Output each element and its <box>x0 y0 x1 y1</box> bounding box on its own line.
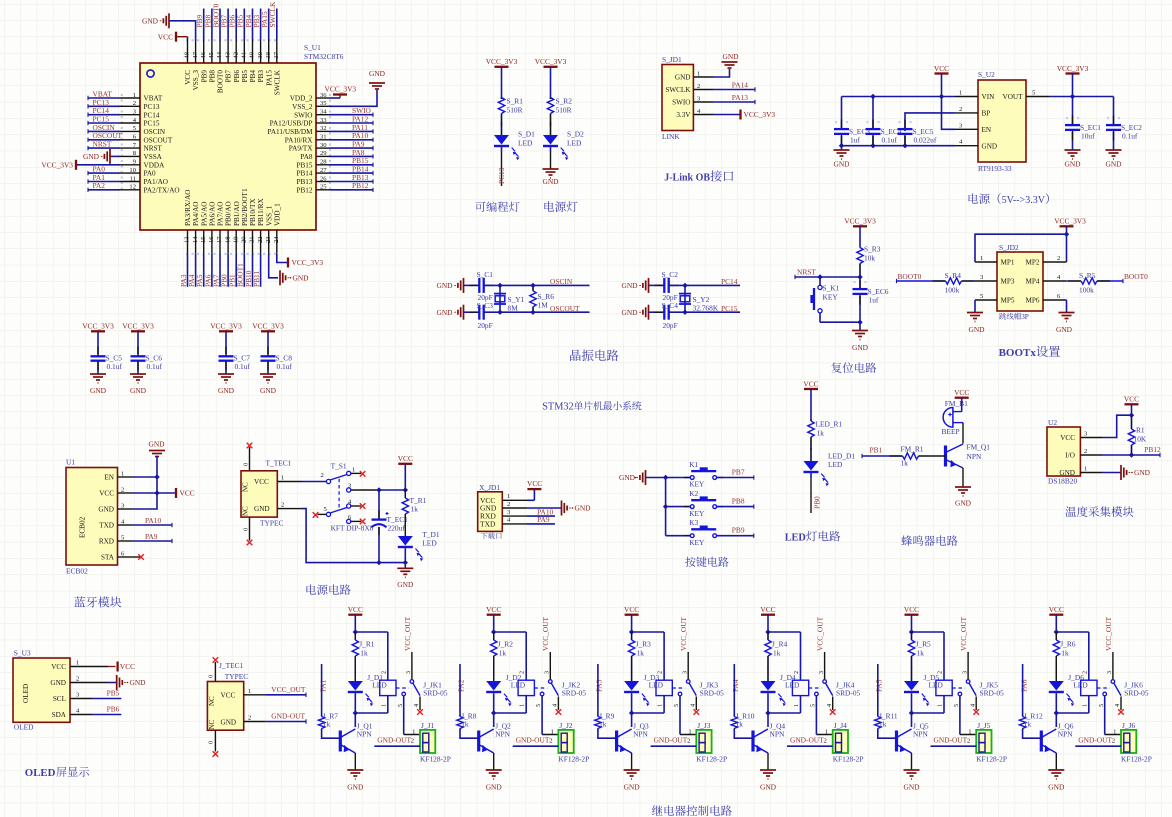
wire to GND <box>550 147 552 153</box>
relay pin 4 no-connect <box>832 697 834 711</box>
wire reset bottom <box>820 321 860 323</box>
wire PA6 to base resistor <box>1022 664 1024 715</box>
relay pin 4 no-connect <box>695 697 697 711</box>
svg-text:1: 1 <box>937 704 944 707</box>
svg-text:PB5: PB5 <box>107 689 120 698</box>
svg-text:0.1uf: 0.1uf <box>107 362 123 371</box>
ground (temp) <box>1120 465 1122 480</box>
wire emitter to ground (relay 3) <box>631 753 633 770</box>
svg-text:20: 20 <box>241 236 248 243</box>
buzzer FM_B1 BEEP <box>943 408 953 428</box>
ground at S_C2 <box>648 278 650 293</box>
svg-text:OSCOUT: OSCOUT <box>144 136 173 144</box>
svg-text:45: 45 <box>208 51 215 58</box>
svg-text:GND: GND <box>486 783 503 792</box>
capacitor S_C5 0.1uf <box>97 361 99 374</box>
svg-text:1: 1 <box>793 704 800 707</box>
svg-text:13: 13 <box>184 236 191 243</box>
coil bottom wire <box>1088 696 1090 713</box>
svg-text:1: 1 <box>121 470 124 477</box>
svg-text:VDD_1: VDD_1 <box>273 203 281 226</box>
svg-text:OSCIN: OSCIN <box>144 128 166 136</box>
connector X_JD1 body <box>478 492 503 532</box>
connector S_JD1 body <box>662 65 693 131</box>
svg-text:2: 2 <box>1057 255 1060 262</box>
svg-text:3P: 3P <box>1021 313 1029 321</box>
U1 pin 47 (VSS_3) wire <box>195 40 197 63</box>
wire K3 to PB9 <box>717 535 754 537</box>
svg-text:GND: GND <box>98 506 114 514</box>
svg-text:GND: GND <box>903 783 920 792</box>
T_TEC1 pin names <box>254 478 270 513</box>
svg-text:1k: 1k <box>1061 649 1069 658</box>
svg-text:KF128-2P: KF128-2P <box>976 755 1007 764</box>
svg-text:1: 1 <box>281 475 284 482</box>
capacitor S_C6 0.1uf <box>137 361 139 374</box>
svg-text:GND: GND <box>624 783 641 792</box>
relay throw pin 5 <box>540 692 544 696</box>
svg-text:T_S1: T_S1 <box>331 462 347 471</box>
svg-text:PA9: PA9 <box>145 532 158 541</box>
svg-text:PB14: PB14 <box>297 170 313 178</box>
svg-text:J-Link OB: J-Link OB <box>664 173 710 184</box>
X_JD1 pin 3 wire <box>502 515 527 517</box>
svg-text:VCC_3V3: VCC_3V3 <box>82 322 114 331</box>
svg-text:S_U3: S_U3 <box>14 649 31 658</box>
U1 pin 17 (PA7/AO) wire <box>219 230 221 254</box>
svg-text:J_J3: J_J3 <box>697 721 710 730</box>
svg-text:1: 1 <box>507 493 510 500</box>
U1 pin 31 (PA10/RX) wire <box>316 139 330 141</box>
svg-text:PA12/USB/DP: PA12/USB/DP <box>270 120 313 128</box>
power VCC at X_JD1 <box>533 489 535 500</box>
X_JD1 pin 4 wire <box>502 523 527 525</box>
ground (T block) <box>404 563 406 569</box>
U1 pin 30 (PA9/TX) wire <box>316 147 330 149</box>
T_TEC1 pin 1 wire <box>277 481 302 483</box>
transistor FM_Q1 NPN <box>944 446 947 467</box>
J_TEC1 pin 2 wire <box>244 721 266 723</box>
svg-text:PB6: PB6 <box>107 705 120 714</box>
svg-text:12: 12 <box>129 184 136 191</box>
svg-text:K2: K2 <box>689 489 698 498</box>
svg-text:VCC: VCC <box>99 490 114 498</box>
svg-text:1: 1 <box>133 92 136 99</box>
wire RXD to PA9 <box>133 540 172 542</box>
svg-text:S_D1: S_D1 <box>518 130 535 139</box>
svg-text:2: 2 <box>697 83 700 90</box>
U1 pin 27 (PB14) wire <box>316 172 330 174</box>
svg-text:GND: GND <box>50 679 66 687</box>
svg-text:GND: GND <box>369 69 386 78</box>
crystal S_Y2 32.768K <box>684 285 686 312</box>
relay throw pin 5 <box>1103 692 1107 696</box>
svg-text:23: 23 <box>265 236 272 243</box>
svg-text:28: 28 <box>320 159 327 166</box>
wire PA4 to base resistor <box>733 664 735 715</box>
LED J_D2 <box>493 668 495 681</box>
svg-text:PA6: PA6 <box>1019 679 1028 692</box>
wire VCC node to coil <box>494 631 527 633</box>
relay coil J_JK2 SRD-05 <box>518 680 534 695</box>
svg-text:BOOT0: BOOT0 <box>1124 272 1148 281</box>
svg-text:0.1uf: 0.1uf <box>147 362 163 371</box>
svg-text:2: 2 <box>967 738 970 745</box>
svg-text:KEY: KEY <box>689 480 705 489</box>
relay link dashed <box>952 687 965 689</box>
svg-text:510R: 510R <box>556 106 572 115</box>
ground at S_JD2 pin 5 <box>967 312 983 314</box>
svg-text:VCC: VCC <box>527 479 542 488</box>
svg-text:GND: GND <box>955 499 972 508</box>
svg-text:15: 15 <box>200 236 207 243</box>
relay armature <box>826 683 833 696</box>
svg-text:VCC: VCC <box>180 489 195 498</box>
svg-text:VCC_OUT: VCC_OUT <box>816 616 825 651</box>
T_S1 link dashed <box>338 479 340 509</box>
svg-text:MP6: MP6 <box>1026 297 1040 305</box>
svg-text:GND: GND <box>83 152 100 161</box>
key K3 <box>684 535 690 537</box>
relay coil J_JK4 SRD-05 <box>792 680 808 695</box>
T_S1 pin 3 <box>347 488 351 492</box>
svg-text:TXD: TXD <box>99 522 114 530</box>
S_JD2 pin 3 wire <box>975 280 997 282</box>
svg-text:GND: GND <box>1048 783 1065 792</box>
svg-text:48: 48 <box>184 51 191 58</box>
svg-text:S_R4: S_R4 <box>945 271 962 280</box>
ground at S_JD2 pin 6 <box>1059 312 1075 314</box>
wire to K1 <box>666 477 690 479</box>
svg-text:1: 1 <box>657 704 664 707</box>
svg-text:NRST: NRST <box>144 145 163 153</box>
svg-text:2: 2 <box>519 671 526 674</box>
svg-text:X_JD1: X_JD1 <box>479 483 500 492</box>
svg-text:PA11/USB/DM: PA11/USB/DM <box>267 128 313 136</box>
svg-text:38: 38 <box>265 51 272 58</box>
relay common pin 3 <box>967 652 969 679</box>
relay armature <box>689 683 696 696</box>
svg-text:0.1uf: 0.1uf <box>277 362 293 371</box>
svg-text:34: 34 <box>320 109 327 116</box>
svg-text:OLED: OLED <box>14 723 34 732</box>
svg-text:NPN: NPN <box>770 730 785 739</box>
resistor S_R3 10k <box>859 246 861 249</box>
S_U3 pin 3 wire <box>70 698 93 700</box>
S_JD2 pin 1 wire <box>975 261 997 263</box>
svg-text:GND: GND <box>130 678 147 687</box>
BP wire to S_EC5 <box>905 113 955 131</box>
svg-text:PA8: PA8 <box>300 153 313 161</box>
ground at S_U3 <box>116 675 118 690</box>
svg-text:5V-->3.3V: 5V-->3.3V <box>1002 195 1046 206</box>
relay link dashed <box>534 687 547 689</box>
svg-text:KFT DIP-8X8: KFT DIP-8X8 <box>331 524 374 533</box>
svg-text:S_C2: S_C2 <box>662 270 679 279</box>
title dianyuan dianlu (T) <box>306 584 316 594</box>
S_JD1 pin 4 line <box>693 114 713 116</box>
svg-text:GND: GND <box>1056 325 1073 334</box>
title anjian dianlu <box>685 557 695 567</box>
label xiazaikou <box>481 533 488 540</box>
relay armature <box>1114 683 1121 696</box>
J_J1 pin 2 wire GND-OUT <box>374 745 420 747</box>
svg-text:2: 2 <box>380 671 387 674</box>
svg-text:SWIO: SWIO <box>294 111 312 119</box>
svg-text:NRST: NRST <box>797 268 816 277</box>
LED cathode rail <box>912 712 945 714</box>
svg-text:LINK: LINK <box>662 132 680 141</box>
svg-text:510R: 510R <box>507 106 523 115</box>
LED cathode rail <box>1056 712 1089 714</box>
ground (S_C8) <box>260 373 276 375</box>
S_U2 pin 4 line <box>955 145 978 147</box>
svg-text:NC: NC <box>208 696 216 706</box>
svg-text:PC15: PC15 <box>144 120 160 128</box>
svg-text:U2: U2 <box>1048 418 1057 427</box>
svg-text:VCC: VCC <box>934 64 949 73</box>
S_JD2 pin 6 wire <box>1043 299 1067 301</box>
U1 pin 20 (PB2/BOOT1) wire <box>243 230 245 254</box>
svg-text:1k: 1k <box>323 720 331 729</box>
svg-text:K1: K1 <box>689 460 698 469</box>
svg-text:J_R4: J_R4 <box>772 640 788 649</box>
U1 pin 15 (PA5/AO) wire <box>203 230 205 254</box>
LED S_D1 <box>501 122 503 135</box>
regulator S_U2 body <box>978 80 1026 162</box>
svg-text:GND: GND <box>542 177 559 186</box>
resistor J_R11 1k <box>877 715 879 717</box>
S_JD2 pin 2 wire <box>1043 261 1067 263</box>
wire PA1 to base resistor <box>321 664 323 715</box>
capacitor S_EC1 10uf <box>1072 97 1074 126</box>
svg-text:14: 14 <box>192 236 199 243</box>
svg-text:24: 24 <box>273 236 280 243</box>
svg-text:J_R2: J_R2 <box>498 640 514 649</box>
T_TEC1 NC stub bottom <box>249 517 251 540</box>
wire to K2 <box>666 506 690 508</box>
svg-text:VIN: VIN <box>982 93 996 101</box>
svg-text:PA3/RX/AO: PA3/RX/AO <box>184 190 192 226</box>
ground at U1 pin 47 VSS_3 <box>169 21 196 40</box>
U1 pin 5 (OSCIN) wire <box>120 130 140 132</box>
LED J_D1 <box>354 668 356 681</box>
svg-text:J_J1: J_J1 <box>421 721 434 730</box>
svg-text:GND-OUT: GND-OUT <box>1078 736 1112 745</box>
svg-text:GND-OUT: GND-OUT <box>377 736 411 745</box>
svg-text:VCC: VCC <box>158 32 173 41</box>
relay link dashed <box>1097 687 1110 689</box>
svg-text:2: 2 <box>824 738 827 745</box>
svg-text:RT9193-33: RT9193-33 <box>978 164 1012 173</box>
svg-text:VCC_OUT: VCC_OUT <box>679 616 688 651</box>
resistor FM_R1 1k <box>884 455 903 457</box>
T_S1 pin 5 <box>313 512 319 518</box>
svg-text:1k: 1k <box>773 649 781 658</box>
S_U3 pin 2 wire <box>70 682 108 684</box>
U1 ECB02 pin 3 line <box>118 508 134 510</box>
relay coil J_JK5 SRD-05 <box>936 680 952 695</box>
svg-text:11: 11 <box>130 175 136 182</box>
svg-text:GND: GND <box>397 580 414 589</box>
svg-text:3: 3 <box>544 671 551 674</box>
U1 pin 43 (PB7) wire <box>227 40 229 63</box>
svg-text:46: 46 <box>200 51 207 58</box>
svg-text:S_JD2: S_JD2 <box>999 243 1019 252</box>
LED cathode rail <box>632 712 665 714</box>
capacitor T_EC1 220uf <box>378 490 380 519</box>
module U2 DS18B20 body <box>1047 427 1080 476</box>
U1 pin 21 (PB10/TX) wire <box>252 230 254 254</box>
relay armature <box>551 683 558 696</box>
svg-text:4: 4 <box>826 704 833 707</box>
svg-text:PA4/AO: PA4/AO <box>192 202 200 227</box>
svg-text:1k: 1k <box>360 649 368 658</box>
coil bottom wire <box>800 696 802 713</box>
svg-text:3: 3 <box>1106 671 1113 674</box>
svg-text:BOOT0: BOOT0 <box>898 272 922 281</box>
resistor J_R10 1k <box>733 715 735 717</box>
ground (relay 1) <box>347 769 363 771</box>
wire PA3 to base resistor <box>597 664 599 715</box>
U1 pin 7 (NRST) wire <box>120 147 140 149</box>
svg-text:S_JD1: S_JD1 <box>662 55 682 64</box>
svg-text:GND: GND <box>436 281 453 290</box>
svg-text:GND: GND <box>621 281 638 290</box>
ground (relay 3) <box>624 769 640 771</box>
svg-text:25: 25 <box>320 184 327 191</box>
svg-text:VCC_3V3: VCC_3V3 <box>744 110 776 119</box>
svg-text:PB0: PB0 <box>812 496 821 509</box>
svg-text:PB8: PB8 <box>209 70 217 83</box>
svg-text:22: 22 <box>257 236 264 243</box>
svg-text:4: 4 <box>969 704 976 707</box>
ground (relay 5) <box>904 769 920 771</box>
capacitor S_C2 20pF <box>655 284 665 286</box>
svg-text:GND-OUT: GND-OUT <box>516 736 550 745</box>
wire VCC node to coil <box>912 631 945 633</box>
svg-text:GND: GND <box>621 308 638 317</box>
svg-text:1: 1 <box>959 90 962 97</box>
svg-text:S_R1: S_R1 <box>507 97 524 106</box>
S_JD2 pin 5 wire <box>975 299 997 301</box>
relay common pin 3 <box>549 652 551 679</box>
U1 ECB02 pin names <box>98 474 114 562</box>
ground below S_EC1 <box>1065 149 1081 151</box>
svg-text:VCC: VCC <box>624 605 639 614</box>
svg-text:LED_R1: LED_R1 <box>816 420 843 429</box>
svg-text:2: 2 <box>1084 448 1087 455</box>
svg-text:S_R2: S_R2 <box>556 97 573 106</box>
svg-text:PB3: PB3 <box>257 70 265 83</box>
svg-text:2: 2 <box>937 671 944 674</box>
svg-text:PB5: PB5 <box>241 70 249 83</box>
svg-text:PB11: PB11 <box>252 271 261 287</box>
svg-text:FM_Q1: FM_Q1 <box>967 443 991 452</box>
svg-text:SRD-05: SRD-05 <box>423 689 448 698</box>
wire emitter to ground (relay 6) <box>1055 753 1057 770</box>
svg-text:18: 18 <box>224 236 231 243</box>
U1 right pin names <box>267 95 313 195</box>
wire VCC node to coil <box>632 631 665 633</box>
LED cathode rail <box>768 712 801 714</box>
ground (buzzer) <box>955 486 971 488</box>
S_U2 pin 1 line <box>955 96 978 98</box>
svg-text:S_C1: S_C1 <box>477 270 494 279</box>
grid snap marks around U1 <box>122 40 330 254</box>
U1 pin 33 (PA12/USB/DP) wire <box>316 122 330 124</box>
svg-text:PB1/AO: PB1/AO <box>233 201 241 226</box>
svg-text:PA2: PA2 <box>93 181 106 190</box>
svg-text:17: 17 <box>216 236 223 243</box>
svg-text:VCC: VCC <box>398 454 413 463</box>
svg-text:PB4: PB4 <box>249 70 257 83</box>
svg-text:J_R1: J_R1 <box>359 640 375 649</box>
wire OSC top rail <box>484 284 590 286</box>
svg-text:40: 40 <box>249 51 256 58</box>
svg-text:MP3: MP3 <box>1001 278 1015 286</box>
svg-text:PB0/AO: PB0/AO <box>225 201 233 226</box>
svg-text:SWCLK: SWCLK <box>268 1 277 28</box>
svg-text:PB12: PB12 <box>352 181 369 190</box>
svg-text:4: 4 <box>1114 704 1121 707</box>
power VCC_3V3 at U1 pin 9 VDDA <box>76 164 120 166</box>
svg-text:21: 21 <box>249 236 256 243</box>
svg-text:3: 3 <box>961 671 968 674</box>
relay throw pin 5 <box>678 692 682 696</box>
svg-text:NRST: NRST <box>93 140 112 149</box>
svg-text:SRD-05: SRD-05 <box>836 689 861 698</box>
svg-text:1: 1 <box>968 728 971 735</box>
wire base resistor to base <box>598 730 617 738</box>
wire emitter to ground (relay 5) <box>911 753 913 770</box>
svg-text:NPN: NPN <box>495 730 510 739</box>
T_TEC1 pin 2 wire <box>277 508 302 510</box>
svg-text:S_U2: S_U2 <box>978 70 995 79</box>
U1 pin 24 (VDD_1) wire <box>276 230 278 254</box>
relay link dashed <box>809 687 822 689</box>
svg-text:PB6: PB6 <box>233 70 241 83</box>
svg-text:RXD: RXD <box>99 538 114 546</box>
svg-text:GND: GND <box>254 505 270 513</box>
ground at U1 pin 8 VSSA <box>110 155 120 157</box>
U1 pin 46 (PB9) wire <box>203 40 205 63</box>
svg-text:NC: NC <box>242 482 250 492</box>
T_S1 throw 1 stub <box>351 472 361 474</box>
ground (relay 6) <box>1048 769 1064 771</box>
LED T_D1 <box>404 523 406 536</box>
resistor S_R6 1M <box>532 285 534 290</box>
svg-text:1k: 1k <box>461 720 469 729</box>
title fuwei dianlu <box>831 362 841 373</box>
resistor J_R7 1k <box>321 715 323 717</box>
LED LED_D1 <box>810 448 812 461</box>
resistor J_R3 1k <box>631 632 633 640</box>
svg-text:OSCIN: OSCIN <box>550 277 573 286</box>
capacitor S_EC4 0.1uf <box>872 97 874 130</box>
transistor J_Q3 NPN <box>631 713 633 727</box>
svg-text:PA6/AO: PA6/AO <box>209 202 217 227</box>
svg-text:GND: GND <box>575 504 592 513</box>
U1 ECB02 pin 1 line <box>118 476 134 478</box>
svg-text:PA1: PA1 <box>318 679 327 692</box>
svg-text:VCC_3V3: VCC_3V3 <box>122 322 154 331</box>
title jingzhen dianlu <box>570 350 581 361</box>
svg-text:100k: 100k <box>945 286 960 295</box>
svg-text:GND: GND <box>833 160 850 169</box>
resistor J_R4 1k <box>767 632 769 640</box>
svg-text:BP: BP <box>982 110 991 118</box>
